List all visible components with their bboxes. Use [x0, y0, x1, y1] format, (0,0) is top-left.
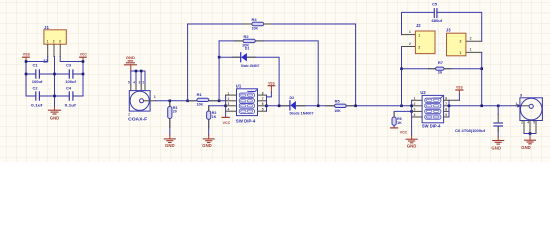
svg-text:3: 3 [228, 102, 230, 106]
junction dots left filter [25, 60, 85, 97]
svg-text:680uf: 680uf [432, 18, 443, 23]
pin numbers U1 right [262, 91, 264, 111]
svg-text:SW DIP-4: SW DIP-4 [422, 123, 441, 128]
node R7 rail right [480, 67, 483, 70]
wire U1 left bus [225, 95, 227, 117]
svg-text:5: 5 [533, 121, 535, 125]
wire cap row 1 [26, 73, 83, 75]
resistor R4 [252, 17, 264, 31]
wire C6 drop [497, 106, 499, 115]
wire cap row 2 [26, 95, 83, 97]
svg-text:0.1uf: 0.1uf [31, 102, 43, 107]
power port VSS above U1 [267, 80, 275, 97]
pin numbers U1 left [228, 91, 230, 111]
wire U2 left bus to GND [411, 100, 413, 135]
wire R3 to gnd [169, 119, 171, 136]
wire R5 to U2 [346, 105, 411, 107]
ground GND below C6 [491, 137, 503, 151]
wire R6 to VCC [393, 125, 395, 128]
pin numbers speaker bottom [521, 121, 535, 125]
svg-text:8: 8 [262, 91, 264, 95]
capacitor C4 [65, 86, 77, 108]
pins speaker bottom [524, 121, 536, 134]
node U2 output [448, 105, 451, 108]
wire J2 pin2 stub [402, 46, 416, 48]
svg-text:2: 2 [460, 40, 462, 44]
svg-text:1: 1 [409, 30, 411, 34]
pin stubs gray D2 [281, 105, 305, 107]
svg-text:10k: 10k [438, 70, 443, 75]
wire R6 branch to U2 bus [394, 111, 412, 117]
wire to speaker gnd [529, 134, 531, 137]
svg-text:GND: GND [50, 116, 60, 121]
pin stubs gray R2 1K [208, 106, 210, 128]
pin stubs coax shield [131, 85, 145, 91]
wire U2 out to speaker [449, 105, 516, 107]
node R2 20K drop [317, 105, 320, 108]
svg-text:2: 2 [409, 42, 411, 46]
power port VCC [80, 51, 87, 61]
svg-text:4: 4 [414, 113, 416, 117]
wire shield drop pin4 [135, 71, 137, 85]
node bus R2b join [224, 105, 227, 108]
svg-text:100uf: 100uf [32, 79, 43, 84]
wire loop right vertical [481, 52, 483, 105]
wire J2 pin1 stub [402, 34, 416, 36]
speaker LS1 [520, 93, 543, 121]
svg-text:VSS: VSS [268, 80, 275, 85]
svg-text:1: 1 [414, 97, 416, 101]
svg-text:1: 1 [470, 48, 472, 52]
pins U1 left [226, 95, 237, 111]
ground GND below U2 [406, 136, 417, 149]
svg-text:R4: R4 [252, 17, 258, 22]
power port VSS above U2 [456, 85, 463, 101]
svg-text:GND: GND [165, 143, 175, 148]
svg-text:GND: GND [126, 55, 135, 60]
pin stubs gray R5 [326, 105, 355, 107]
svg-text:Diode 1N4007: Diode 1N4007 [290, 111, 314, 115]
pin numbers coax 5 4 3 2 [128, 81, 144, 85]
svg-text:C6 4T08|1000uf: C6 4T08|1000uf [455, 128, 486, 133]
svg-text:2: 2 [521, 121, 523, 125]
wire C6 to gnd [497, 126, 499, 137]
wire speaker gnd bar [524, 133, 536, 135]
resistor R5 [334, 98, 346, 112]
svg-text:5: 5 [262, 107, 264, 111]
capacitor C2 [31, 86, 43, 108]
svg-text:2: 2 [53, 39, 55, 43]
svg-text:7: 7 [262, 97, 264, 101]
connector J3 [446, 28, 472, 56]
svg-text:VCC: VCC [223, 120, 231, 125]
svg-text:J3: J3 [446, 28, 451, 33]
node R6 branch on bus [410, 110, 413, 113]
power port VCC below U1 bus [222, 117, 230, 125]
svg-text:0.1uf: 0.1uf [65, 102, 77, 107]
wire vertical to top rail [187, 24, 189, 101]
svg-text:D1: D1 [245, 46, 250, 50]
svg-text:1K: 1K [397, 121, 402, 125]
wire U1 out to D2 [267, 105, 291, 107]
pin stubs gray R1 [188, 100, 218, 102]
pin stubs gray R7 [429, 68, 452, 70]
wire R2 20K row [219, 41, 318, 106]
resistor R3 [168, 106, 178, 119]
pin stubs gray R3 [169, 102, 171, 127]
svg-text:R2: R2 [244, 34, 250, 39]
svg-text:4: 4 [228, 107, 230, 111]
svg-text:C2: C2 [33, 86, 39, 91]
svg-text:5: 5 [128, 81, 130, 85]
pin stubs gray R2 20K [234, 40, 264, 42]
wire D2 to R5 [296, 105, 334, 107]
svg-text:2: 2 [414, 102, 416, 106]
junction dots shield bus [135, 70, 143, 73]
svg-text:2: 2 [228, 97, 230, 101]
ground GND below filter [49, 107, 61, 121]
node R3 top [169, 100, 172, 103]
node feedback tap [186, 100, 189, 103]
wire feedback vertical [218, 41, 220, 101]
svg-text:4: 4 [527, 121, 529, 125]
wire D1 row [219, 57, 279, 106]
wire loop left vertical upper [402, 12, 435, 34]
power port VCC below R6 [391, 128, 408, 135]
pin speaker in [516, 105, 529, 107]
svg-text:D2: D2 [290, 96, 295, 100]
svg-text:10K: 10K [197, 102, 204, 107]
svg-text:1: 1 [418, 33, 420, 37]
capacitor C3 [65, 62, 76, 84]
ground GND below speaker [521, 136, 535, 149]
svg-text:GND: GND [407, 144, 417, 149]
pin stubs gray D1 [232, 56, 256, 58]
svg-text:COAX-F: COAX-F [128, 116, 148, 121]
ground GND below R3 [164, 135, 175, 148]
wire C5 to right vertical [437, 12, 482, 41]
node R7 rail left [400, 67, 403, 70]
wire U1 right bus [266, 95, 268, 111]
svg-text:2: 2 [142, 81, 144, 85]
pin J1-1 [47, 44, 49, 56]
svg-text:C3: C3 [66, 62, 72, 67]
svg-text:VSS: VSS [456, 85, 463, 90]
node U2 input [410, 105, 413, 108]
wire R3 drop [169, 101, 171, 107]
diode D1 [241, 46, 260, 68]
connector J2 [409, 23, 435, 54]
wire top rail [188, 23, 356, 25]
svg-text:C4: C4 [66, 86, 72, 91]
svg-text:5: 5 [445, 113, 447, 117]
svg-text:GND: GND [491, 145, 501, 150]
connector CON1 COAX-F [128, 91, 150, 122]
svg-text:1: 1 [154, 95, 156, 99]
ground GND below R2b [202, 135, 214, 148]
node D1 row tap [218, 56, 221, 59]
capacitor C6 [455, 123, 502, 133]
pin numbers U2 left [414, 97, 416, 118]
wire R2b to gnd [208, 119, 210, 135]
wire top rail drop [355, 24, 357, 106]
wire loop left vertical lower [401, 47, 403, 106]
pin 1 of coax [144, 100, 156, 102]
svg-text:J2: J2 [416, 23, 421, 28]
svg-text:2: 2 [418, 45, 420, 49]
capacitor C1 [32, 62, 43, 84]
svg-text:100uf: 100uf [65, 79, 76, 84]
pin numbers J1 1 2 3 [47, 39, 61, 43]
svg-text:3: 3 [139, 81, 141, 85]
svg-text:U1: U1 [236, 83, 242, 88]
wire U2 right bus [448, 100, 450, 117]
capacitor C5 [432, 2, 443, 23]
pin numbers U2 right [445, 97, 447, 118]
node loop vertical joins main [400, 105, 403, 108]
node U1 output [265, 105, 268, 108]
wire shield drop pin5 [130, 71, 132, 85]
connector J1 [44, 25, 66, 44]
svg-text:J1: J1 [44, 25, 49, 30]
svg-text:U2: U2 [420, 90, 426, 95]
wire coax shield bus [131, 71, 145, 85]
svg-text:20: 20 [173, 110, 177, 114]
ground GND above coax [124, 55, 136, 71]
wire J3 pin1 stub [466, 51, 482, 53]
node top rail drop [354, 105, 357, 108]
node speaker gnd [529, 132, 532, 135]
svg-text:R1: R1 [197, 92, 203, 97]
svg-text:C5: C5 [432, 2, 438, 7]
node D1 drop [278, 105, 281, 108]
pin stubs gray R4 [243, 23, 273, 25]
svg-text:6: 6 [262, 102, 264, 106]
svg-text:3: 3 [59, 39, 61, 43]
resistor R2 1K [207, 111, 217, 119]
pins U2 left [412, 100, 423, 117]
svg-text:10K: 10K [252, 25, 259, 30]
wire branch horizontal R2b to bus [209, 105, 226, 107]
diode D2 [290, 96, 314, 115]
svg-text:2: 2 [128, 112, 130, 116]
svg-text:R7: R7 [438, 60, 444, 65]
wire R1 to U1 bus [209, 100, 226, 102]
IC U2 SW DIP-4 [420, 90, 443, 128]
svg-text:1: 1 [228, 91, 230, 95]
pin stubs gray C6 [497, 115, 499, 132]
svg-text:C1: C1 [33, 62, 39, 67]
svg-text:1K: 1K [212, 115, 217, 119]
node loop right drop [480, 105, 483, 108]
wire R2b drop [208, 106, 210, 111]
svg-text:GND: GND [202, 143, 212, 148]
svg-text:1: 1 [47, 39, 49, 43]
wire center rail J1-2 to GND [54, 57, 56, 107]
svg-text:VSS: VSS [23, 51, 30, 56]
svg-text:3: 3 [414, 108, 416, 112]
svg-text:VCC: VCC [400, 130, 408, 135]
svg-text:GND: GND [521, 145, 531, 150]
power port VSS [23, 51, 30, 61]
wire J1-3 to VCC rail [60, 57, 83, 97]
svg-text:6: 6 [445, 108, 447, 112]
pin arrow speaker [517, 104, 520, 108]
node feedback vertical joins main [218, 100, 221, 103]
svg-text:R5: R5 [335, 98, 341, 103]
svg-text:VCC: VCC [80, 51, 87, 56]
resistor R6 [392, 117, 402, 126]
svg-text:1: 1 [460, 51, 462, 55]
wire J1-1 to VSS rail [26, 57, 48, 97]
svg-text:2: 2 [470, 37, 472, 41]
wire J3 pin2 stub [466, 40, 482, 42]
pin J1-2 [53, 44, 55, 56]
pin stub gray R6 [393, 112, 395, 117]
svg-text:SW DIP-4: SW DIP-4 [236, 118, 256, 123]
wire coax out to R1 [156, 100, 197, 102]
pins U1 right [258, 95, 267, 111]
svg-text:8: 8 [445, 97, 447, 101]
svg-text:Diode 1N4007: Diode 1N4007 [241, 64, 260, 68]
pins U2 right [444, 100, 460, 117]
wire shield drop pin3 [140, 71, 142, 85]
resistor R7 [436, 60, 445, 75]
resistor R2 20K [242, 34, 255, 47]
wire R7 rail [402, 68, 482, 70]
svg-text:4: 4 [133, 81, 135, 85]
node C6 tap [497, 105, 500, 108]
pin J1-3 [59, 44, 61, 56]
IC U1 SW DIP-4 [236, 83, 258, 123]
resistor R1 [197, 92, 209, 107]
svg-text:7: 7 [445, 102, 447, 106]
svg-text:10K: 10K [334, 108, 341, 113]
